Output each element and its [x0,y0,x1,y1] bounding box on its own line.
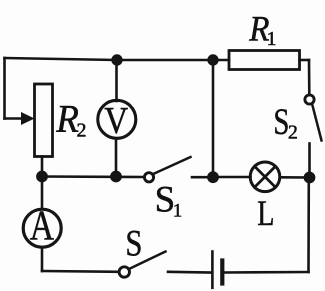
node lamp-right junction [304,172,316,184]
switch S lever [129,252,166,270]
switch S1 pivot circle [144,173,153,182]
node top-left junction [111,54,122,65]
wire bottom left segment [42,270,119,273]
switch S2 pivot circle [305,95,314,104]
node mid-left junction [36,171,48,183]
switch S1 lever [153,157,190,174]
wire right vertical lower [307,178,310,273]
node below voltmeter [110,171,122,183]
voltmeter V wire top [115,60,118,101]
voltmeter V body [98,100,136,138]
ammeter A wire bottom [41,248,44,272]
wire middle to lamp [213,176,251,179]
svg-text:L: L [257,193,274,233]
wire lamp to right node [280,176,310,179]
wire corner down to S2 [308,60,311,95]
wire middle left segment [42,175,144,178]
wire R1 to corner [300,59,310,62]
wire rheostat bottom [41,157,44,177]
svg-text:1: 1 [173,200,183,221]
lamp L body [250,162,280,192]
wire S2 bottom stub [308,144,311,178]
wire left vertical [3,58,6,119]
wire S to battery [168,270,211,273]
switch S pivot circle [119,267,129,277]
wire vertical mid (node to node) [212,60,215,177]
ammeter A body [23,209,61,247]
rheostat R2 arrowhead [21,112,35,125]
svg-text:R: R [55,98,79,141]
svg-text:1: 1 [267,28,277,50]
node mid-right junction [207,171,219,183]
switch S2 lever [313,106,322,141]
node top-right junction [207,54,218,65]
rheostat R2 body [35,84,53,157]
ammeter A wire top [41,177,44,209]
battery short plate [220,261,224,284]
voltmeter V wire bottom [115,139,118,177]
svg-text:2: 2 [77,119,87,141]
battery long plate [211,252,214,288]
svg-text:S: S [125,224,142,264]
svg-text:2: 2 [288,122,298,144]
wire S1 right stub [192,176,213,179]
svg-text:A: A [30,203,55,249]
resistor R1 body [229,51,300,70]
lamp L cross [255,166,276,187]
wire top horizontal [5,58,230,60]
svg-text:V: V [104,99,128,142]
wire battery to right [225,271,309,274]
wire to rheostat arrow [5,117,23,120]
